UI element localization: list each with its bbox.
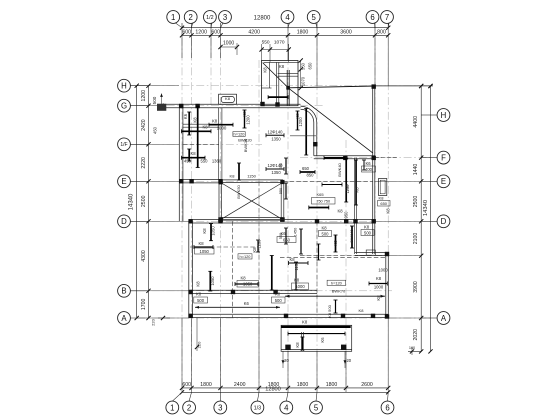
left outer wall upper (G to D) [178, 104, 180, 221]
beam bar 12phi lower [266, 168, 284, 170]
axis bubble 1/2 [204, 11, 217, 24]
svg-text:A: A [441, 314, 447, 323]
axis bubble H left [118, 79, 131, 92]
svg-text:3: 3 [223, 13, 227, 22]
columns at grid intersections [179, 104, 183, 108]
svg-text:1800: 1800 [326, 382, 338, 388]
left overall dim line 14340 [136, 86, 138, 318]
svg-text:400: 400 [365, 167, 373, 172]
svg-text:5: 5 [314, 403, 319, 412]
beam bar vert x364 F [363, 160, 365, 170]
stair inner column line axis4 [286, 70, 288, 106]
svg-text:2020: 2020 [413, 329, 419, 341]
axis bubble 6 [366, 11, 379, 24]
beam bar 1050 mid [235, 283, 258, 285]
right bottom small ticks 160 [408, 350, 421, 352]
beam bar vertical x352 lower [351, 226, 353, 248]
svg-text:BWK30: BWK30 [243, 138, 248, 152]
svg-text:550: 550 [279, 163, 283, 169]
svg-text:K8: K8 [252, 247, 257, 253]
axis bubble E right [437, 175, 450, 188]
svg-text:1: 1 [171, 13, 175, 22]
svg-text:1200: 1200 [298, 117, 303, 127]
svg-text:550: 550 [301, 62, 306, 70]
bubble leaders top [175, 23, 182, 28]
svg-text:2220: 2220 [141, 157, 147, 169]
porch top beam thick [281, 326, 351, 328]
svg-text:K8: K8 [376, 276, 382, 281]
beam bar vertical x356 [355, 160, 357, 205]
beam bar D-B mid [194, 246, 213, 248]
svg-text:K8: K8 [196, 281, 201, 287]
X box corner columns [219, 180, 223, 184]
svg-text:12800: 12800 [254, 16, 271, 22]
svg-text:600: 600 [211, 30, 220, 36]
svg-text:K8: K8 [302, 320, 308, 325]
axis bubble 1 [167, 11, 180, 24]
step wall at right (y254) [355, 251, 388, 253]
grid axis 6 top [374, 23, 376, 235]
svg-text:BWK50: BWK50 [236, 184, 241, 198]
svg-text:2: 2 [189, 13, 193, 22]
stair tower outline [262, 61, 299, 106]
axis bubble A left [118, 312, 131, 325]
grid axis 4 [287, 23, 289, 392]
rebar bar x301 lower [300, 229, 302, 254]
svg-text:650: 650 [380, 201, 387, 206]
svg-text:800: 800 [377, 30, 386, 36]
svg-text:1450: 1450 [294, 228, 298, 236]
svg-text:K8: K8 [279, 64, 285, 69]
svg-text:500: 500 [275, 298, 283, 303]
svg-text:1050: 1050 [243, 282, 253, 287]
dim 220 below left wall A [196, 318, 198, 351]
axis bubble D right [437, 215, 450, 228]
grid axis D [137, 220, 433, 222]
axis bubble 4 [281, 11, 294, 24]
beam bar vertical x244 [244, 110, 246, 128]
svg-text:K8: K8 [364, 225, 370, 230]
svg-text:2500: 2500 [413, 196, 419, 208]
stair diagonal [263, 63, 289, 88]
X brace diagonal 2 [221, 183, 283, 220]
svg-text:500: 500 [322, 231, 330, 236]
beam span arrow line bottom room [285, 295, 385, 297]
svg-text:2600: 2600 [361, 382, 373, 388]
beam bar row2 [182, 157, 206, 159]
beam bar vert x335 low [335, 300, 337, 313]
axis bubble 2 [184, 11, 197, 24]
rebar bar x318 crossing D [318, 244, 320, 260]
bottom segment dim line [182, 387, 388, 389]
grid axis 5a [345, 140, 347, 392]
bottom overall dim line 12800 [182, 391, 388, 393]
beam E across stair void [222, 179, 283, 181]
svg-text:h=120: h=120 [240, 254, 252, 259]
svg-text:650: 650 [302, 166, 310, 171]
svg-text:1150: 1150 [257, 239, 262, 249]
svg-text:850: 850 [307, 173, 315, 178]
beam bar vertical x335 [335, 235, 337, 252]
svg-text:K8: K8 [230, 174, 236, 179]
svg-text:K8: K8 [295, 342, 300, 348]
svg-text:4: 4 [285, 13, 290, 22]
svg-text:1150: 1150 [294, 261, 299, 271]
porch ext dims 120 [282, 351, 284, 368]
grid axis A [137, 317, 433, 319]
right wing right wall (top to step) [372, 86, 374, 254]
sub-dim 1000 at axis 3 [221, 46, 238, 48]
right overall dim line 14340 [430, 86, 432, 351]
beam bar 1150 row [289, 262, 309, 264]
grid axis Da right [300, 255, 421, 257]
svg-text:G: G [121, 102, 127, 111]
svg-text:BWK40: BWK40 [337, 162, 342, 176]
svg-text:K8: K8 [240, 276, 246, 281]
svg-text:K8: K8 [212, 118, 218, 123]
axis bubble B left [118, 284, 131, 297]
svg-text:14340: 14340 [423, 200, 429, 216]
label h=120 box [233, 132, 245, 137]
svg-text:K8: K8 [225, 96, 231, 101]
porch inner bar [288, 333, 345, 335]
svg-text:650: 650 [283, 237, 291, 242]
svg-text:1350: 1350 [271, 170, 281, 175]
svg-text:K8: K8 [337, 209, 343, 214]
svg-text:4: 4 [284, 403, 289, 412]
axis bubble 1/3 btm [251, 401, 264, 414]
svg-text:h=120: h=120 [234, 131, 246, 136]
svg-text:1070: 1070 [274, 40, 285, 46]
axis bubble E left [118, 175, 131, 188]
svg-text:1800: 1800 [200, 382, 212, 388]
svg-text:E: E [441, 177, 446, 186]
svg-text:K6: K6 [365, 161, 371, 166]
interior beam 1/F dashed [183, 143, 219, 145]
eave extension to right dims [375, 85, 433, 87]
grid margin solids [181, 23, 183, 58]
grid axis 2 [191, 23, 193, 392]
svg-text:D: D [441, 217, 447, 226]
svg-text:K8: K8 [376, 295, 381, 301]
interior wall axis3 upper [218, 108, 220, 180]
svg-text:450: 450 [184, 159, 192, 164]
axis bubble 7 [381, 11, 394, 24]
svg-text:K8: K8 [190, 151, 196, 156]
interior wall x355 (F to D) [354, 158, 356, 254]
pier hatch at G west [157, 104, 166, 111]
beam bar vertical x346 BWK40 [345, 158, 347, 202]
chimney box right of wall [379, 179, 387, 196]
beam bar stair top [268, 96, 288, 98]
bay inner line [290, 135, 316, 137]
svg-text:650: 650 [308, 62, 313, 70]
stair right dim col [300, 61, 302, 89]
axis bubble H right [437, 109, 450, 122]
axis bubble 4 btm [280, 401, 293, 414]
svg-text:500: 500 [197, 298, 205, 303]
svg-text:950: 950 [344, 211, 349, 219]
grid axis B [137, 290, 392, 292]
porch inner wall [300, 332, 302, 351]
svg-text:K6: K6 [244, 301, 250, 306]
beam bar vertical x271 [271, 256, 273, 291]
svg-text:1/F: 1/F [120, 142, 127, 148]
svg-text:600: 600 [182, 382, 191, 388]
stair void box with X brace [218, 181, 220, 220]
svg-text:A: A [121, 314, 127, 323]
svg-text:3600: 3600 [340, 30, 352, 36]
svg-text:4300: 4300 [141, 250, 147, 262]
axis bubble 5 [307, 11, 320, 24]
parapet box on G wall [219, 94, 237, 104]
svg-text:1360: 1360 [212, 159, 222, 164]
svg-text:B: B [121, 287, 126, 296]
svg-text:K8: K8 [193, 117, 198, 123]
svg-text:20: 20 [284, 358, 289, 363]
beam bar horiz under 750 [309, 207, 329, 209]
svg-text:1070: 1070 [301, 76, 306, 86]
svg-text:1700: 1700 [141, 299, 147, 311]
interior wall row1 left wing [183, 123, 219, 125]
wall along F right wing [314, 155, 375, 157]
svg-text:750 750: 750 750 [316, 200, 330, 204]
beam bar vertical x211 D-room [210, 224, 212, 241]
svg-text:K8 500: K8 500 [327, 304, 332, 317]
svg-text:K8: K8 [198, 241, 204, 246]
beam bar horiz right room [369, 283, 387, 285]
svg-text:550: 550 [262, 40, 270, 46]
svg-text:450: 450 [153, 126, 158, 134]
grid axis 1/2 [210, 23, 212, 108]
svg-text:2500: 2500 [141, 195, 147, 207]
svg-text:D: D [121, 217, 127, 226]
svg-text:K8: K8 [379, 196, 385, 201]
svg-text:1000: 1000 [374, 285, 384, 290]
grid axis E [137, 180, 433, 182]
beam bar vertical x189b [188, 149, 190, 161]
beam bar vertical x297 [297, 111, 299, 130]
grid axis H [137, 85, 433, 87]
F wall dashes to dim [375, 156, 398, 158]
axis bubble 5 btm [310, 401, 323, 414]
svg-text:550: 550 [279, 233, 283, 239]
axis bubble G left [118, 99, 131, 112]
grid axis G [137, 105, 325, 107]
top segment dim line [182, 34, 388, 36]
beam bar vert porch [301, 337, 303, 350]
bay window arc wall [301, 106, 317, 156]
interior dashed beams lower block [232, 221, 234, 318]
svg-text:3: 3 [218, 403, 222, 412]
axis bubble 2 btm [183, 401, 196, 414]
porch outline [281, 325, 352, 351]
right segment dim line [420, 86, 422, 351]
svg-text:1050: 1050 [211, 226, 216, 236]
grid axis 1 [181, 23, 183, 392]
svg-text:1200: 1200 [246, 115, 251, 125]
svg-text:6: 6 [385, 403, 389, 412]
axis bubble F right [437, 151, 450, 164]
svg-text:K6: K6 [320, 337, 325, 343]
left segment dim line [148, 86, 150, 318]
svg-text:1050: 1050 [210, 276, 215, 286]
svg-text:1440: 1440 [413, 164, 419, 176]
svg-text:K8: K8 [196, 292, 202, 297]
svg-text:K65: K65 [316, 192, 324, 197]
svg-text:BWK70: BWK70 [332, 289, 346, 294]
top overall dim line 12800 [182, 27, 388, 29]
axis bubble 6 btm [381, 401, 394, 414]
X brace diagonal 1 [221, 183, 283, 220]
svg-text:K8: K8 [386, 208, 391, 214]
svg-text:1: 1 [170, 403, 174, 412]
svg-text:K8: K8 [333, 240, 338, 246]
beam bar vert x296 lower [295, 262, 297, 290]
beam bar vertical x210 B-room [209, 271, 211, 291]
grid axis F right [300, 157, 433, 159]
svg-text:BWK40: BWK40 [350, 230, 354, 243]
svg-text:1/3: 1/3 [254, 405, 262, 411]
svg-text:6: 6 [370, 13, 374, 22]
svg-text:K8: K8 [263, 67, 268, 73]
grid axis 1/3 [258, 60, 260, 392]
svg-text:500: 500 [152, 96, 157, 104]
svg-text:2420: 2420 [141, 119, 147, 131]
wall along B [189, 289, 317, 291]
svg-text:2100: 2100 [413, 233, 419, 245]
svg-text:K8: K8 [275, 292, 281, 297]
left outer wall lower (D to A) [188, 221, 190, 317]
wall along G top of left wing [157, 103, 301, 105]
axis bubble 1 btm [166, 401, 179, 414]
svg-text:1800: 1800 [297, 382, 309, 388]
svg-text:E: E [121, 177, 126, 186]
svg-text:1000: 1000 [217, 125, 227, 130]
svg-text:2: 2 [187, 403, 191, 412]
svg-text:600: 600 [182, 30, 191, 36]
beam bar vertical x197 [197, 107, 199, 168]
svg-text:5: 5 [312, 13, 317, 22]
svg-text:H: H [121, 82, 127, 91]
svg-text:K6: K6 [183, 113, 188, 119]
beam bar vertical x306 bay [305, 109, 307, 156]
svg-text:12Φ140: 12Φ140 [268, 130, 284, 135]
porch columns [285, 345, 290, 350]
bubble leaders bottom [172, 392, 182, 401]
svg-text:3900: 3900 [413, 281, 419, 293]
roof eave line from stair to right wall [288, 86, 375, 88]
svg-text:1000: 1000 [223, 40, 234, 46]
rebar bars along axis-4 wall [285, 158, 287, 174]
svg-text:1200: 1200 [141, 90, 147, 102]
sub-dims 550 1070 above stair box [262, 49, 289, 51]
beam bar K8 horiz row1 [209, 124, 233, 126]
svg-text:500: 500 [364, 230, 372, 235]
roof valley diagonal [289, 89, 373, 153]
axis bubble 1/F left [118, 138, 131, 151]
axis bubble A right [437, 312, 450, 325]
svg-text:12800: 12800 [265, 387, 281, 393]
beam E dashed to right wall [283, 180, 373, 182]
svg-text:1800: 1800 [297, 30, 309, 36]
svg-text:550: 550 [279, 188, 283, 194]
svg-text:K8: K8 [202, 228, 207, 234]
svg-text:K8: K8 [289, 257, 295, 262]
svg-text:7: 7 [385, 13, 389, 22]
axis bubble D left [118, 215, 131, 228]
svg-text:1000: 1000 [295, 284, 305, 289]
svg-text:4400: 4400 [413, 116, 419, 128]
svg-text:20: 20 [346, 358, 351, 363]
svg-text:550: 550 [201, 159, 209, 164]
svg-text:220: 220 [151, 318, 156, 325]
svg-text:14340: 14340 [128, 193, 134, 210]
grid axis 1/F [137, 143, 262, 145]
svg-text:K8: K8 [294, 278, 300, 283]
grid axis 5 [316, 23, 318, 392]
stair tower inner wall [276, 62, 278, 105]
svg-text:h=120: h=120 [331, 280, 343, 285]
svg-text:K8: K8 [359, 308, 365, 313]
beam bar 12phi upper [266, 134, 284, 136]
svg-text:F: F [441, 153, 446, 162]
svg-text:1050: 1050 [200, 249, 210, 254]
svg-text:H: H [441, 111, 447, 120]
porch bottom double [281, 349, 352, 351]
svg-text:1200: 1200 [195, 30, 207, 36]
svg-text:K8: K8 [321, 226, 327, 231]
svg-text:1000: 1000 [378, 268, 388, 273]
svg-text:K8: K8 [202, 125, 208, 130]
beam bar along F [324, 157, 345, 159]
beam bar E right seg [322, 184, 342, 186]
wall along D [189, 219, 375, 221]
right lower outer wall [385, 254, 387, 318]
beam bar horiz 650 [300, 171, 315, 173]
beam bar vertical x239 [238, 163, 240, 180]
axis bubble 3 btm [214, 401, 227, 414]
svg-text:1/2: 1/2 [206, 15, 214, 21]
svg-text:4200: 4200 [248, 30, 260, 36]
label h=120 box mid lower [238, 254, 252, 259]
axis bubble 3 [219, 11, 232, 24]
svg-text:900: 900 [344, 183, 349, 190]
wall along A bottom [189, 313, 388, 315]
beam bar vertical x189a [188, 112, 190, 135]
beam bar row1b [182, 130, 212, 132]
grid axis 7 [387, 23, 389, 392]
wall along E left wing [179, 179, 222, 181]
svg-text:2400: 2400 [234, 382, 246, 388]
svg-text:1150: 1150 [247, 174, 256, 179]
grid axis 3 [220, 23, 222, 392]
svg-text:K8: K8 [355, 187, 360, 193]
long bar in B-A strip [195, 306, 280, 308]
svg-text:1350: 1350 [271, 137, 281, 142]
beam bar vert x258 [257, 240, 259, 252]
